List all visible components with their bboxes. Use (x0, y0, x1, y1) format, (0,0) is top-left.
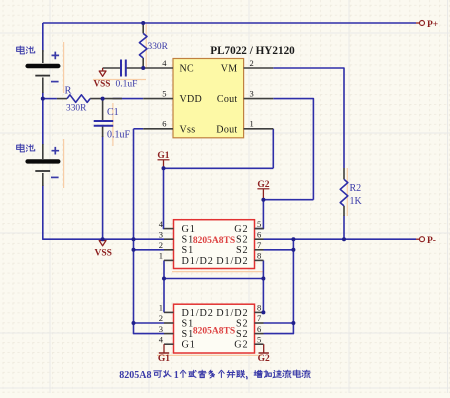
svg-text:1K: 1K (350, 196, 363, 207)
transistor U2 8205A8TS body (174, 220, 255, 269)
junction D net right (261, 277, 265, 281)
wire S2 column down to U3 pin6 (264, 239, 294, 333)
terminal P- (416, 236, 436, 246)
wire U2 pin8 to U3 pin8 (262, 260, 264, 312)
svg-text:G2: G2 (258, 354, 270, 364)
wire G1 down to U2 pin4 (163, 168, 166, 228)
junction S1 row2 (132, 248, 136, 252)
svg-text:VSS: VSS (95, 249, 112, 259)
svg-text:3: 3 (250, 88, 254, 98)
junction 330R / cap / NC (141, 66, 145, 70)
wire S1 row2 to U2 pin2 (134, 249, 165, 251)
capacitor 0.1uF (103, 60, 144, 90)
U2 pin 7 S2 (255, 249, 264, 251)
svg-text:1: 1 (174, 370, 179, 381)
marker battery B2 (63, 139, 65, 188)
svg-text:G1: G1 (158, 354, 170, 364)
node G1 (162, 166, 166, 170)
U3 pin 7 S2 (255, 322, 264, 324)
capacitor C1 0.1uF (94, 99, 131, 141)
U2 pin 6 S2 (255, 238, 264, 240)
junction battery / R (41, 97, 45, 101)
wire battery B1 bottom to node (42, 92, 44, 99)
marker battery B1 (63, 42, 65, 93)
svg-text:1: 1 (159, 251, 163, 261)
U2 pin 3 S1 (164, 238, 174, 240)
terminal P+ (416, 20, 438, 30)
U3 pin 2 S1 (164, 322, 174, 324)
svg-text:R: R (65, 86, 72, 97)
svg-text:G1: G1 (182, 224, 196, 235)
wire R2 bottom to P- rail (343, 216, 345, 240)
svg-text:Vss: Vss (180, 124, 196, 135)
net label G1 (157, 151, 169, 168)
U1 pin 2 VM (244, 67, 274, 69)
junction U3 pin7 (291, 321, 295, 325)
wire node G2 horizontal (263, 199, 313, 201)
svg-text:330R: 330R (148, 42, 169, 52)
power port G1 bottom (158, 344, 170, 364)
svg-text:2: 2 (159, 313, 163, 323)
svg-text:2: 2 (159, 240, 163, 250)
svg-text:8205A8: 8205A8 (119, 370, 151, 381)
wire G2 down to U2 pin5 (255, 200, 264, 229)
marker resistor R2 (346, 168, 348, 216)
svg-text:5: 5 (257, 219, 261, 229)
U1 pin 4 NC (143, 67, 173, 69)
svg-text:6: 6 (162, 119, 166, 129)
wire U2 pin1 to U3 pin1 (163, 260, 165, 312)
svg-text:S2: S2 (236, 245, 249, 256)
U3 pin 5 G2 (255, 343, 264, 345)
svg-text:R2: R2 (350, 183, 362, 194)
svg-text:VDD: VDD (180, 94, 203, 105)
svg-text:VSS: VSS (94, 79, 111, 89)
junction R / C1 (101, 97, 105, 101)
svg-text:Dout: Dout (216, 124, 237, 135)
svg-text:6: 6 (257, 324, 261, 334)
svg-text:1: 1 (159, 303, 163, 313)
marker under U2 (172, 271, 263, 273)
wire Vss pin6 column (133, 129, 135, 239)
svg-text:PL7022 / HY2120: PL7022 / HY2120 (210, 45, 295, 57)
power port VSS bottom (95, 241, 112, 259)
svg-text:C1: C1 (107, 107, 119, 118)
U3 pin 1 D1/D2 (164, 311, 174, 313)
svg-text:P+: P+ (427, 20, 438, 30)
transistor U3 8205A8TS body (174, 304, 255, 353)
svg-text:7: 7 (257, 240, 261, 250)
resistor R2 1K (340, 168, 362, 216)
junction P- rail / S2 (291, 237, 295, 241)
U1 pin 5 VDD (143, 98, 173, 100)
junction U2 pin7 (291, 248, 295, 252)
wire net P- rail (264, 238, 417, 240)
junction P- rail / R2 (342, 237, 346, 241)
svg-text:D1/D2: D1/D2 (182, 308, 214, 319)
power port VSS top (94, 68, 111, 89)
resistor R 330R (57, 86, 122, 114)
wire net P+ top rail (43, 22, 416, 24)
junction U3 pin8 (261, 310, 265, 314)
svg-text:3: 3 (159, 229, 163, 239)
wire VM pin2 to R2 top (273, 68, 344, 168)
junction top rail / 330R (141, 21, 145, 25)
svg-text:G1: G1 (182, 340, 196, 351)
wire node to R left (43, 98, 57, 100)
junction S1 rail (132, 237, 136, 241)
wire C1 bottom to VSS rail (102, 136, 104, 239)
svg-text:7: 7 (257, 313, 261, 323)
U2 pin 8 D1/D2 (255, 259, 264, 261)
svg-text:D1/D2: D1/D2 (216, 308, 248, 319)
U2 pin 2 S1 (164, 249, 174, 251)
battery B1 电池 (17, 46, 61, 93)
wire Cout pin3 down to G2 (273, 99, 313, 200)
U3 pin 4 G1 (164, 343, 174, 345)
wire D1/D2 tie under U2 (164, 278, 263, 280)
svg-text:3: 3 (159, 324, 163, 334)
svg-text:S1: S1 (182, 245, 195, 256)
wire node down to battery B2 (42, 99, 44, 145)
battery B2 电池 (17, 144, 61, 186)
svg-text:8205A8TS: 8205A8TS (193, 236, 235, 246)
svg-text:VM: VM (221, 64, 238, 75)
svg-text:330R: 330R (66, 104, 87, 114)
svg-text:P-: P- (427, 236, 436, 246)
svg-text:D1/D2: D1/D2 (216, 256, 248, 267)
svg-text:G2: G2 (234, 224, 248, 235)
U1 pin 3 Cout (244, 98, 274, 100)
node G2 (261, 198, 265, 202)
resistor 330R vertical (139, 23, 168, 68)
U3 pin 6 S2 (255, 333, 264, 335)
junction VSS rail / C1 (101, 237, 105, 241)
op-amp U1 PL7022 / HY2120 body (173, 59, 244, 138)
wire R right to VDD pin (113, 98, 144, 100)
svg-text:D1/D2: D1/D2 (182, 256, 214, 267)
svg-text:2: 2 (250, 58, 254, 68)
svg-text:S2: S2 (236, 235, 249, 246)
wire battery B2 to S1 rail (43, 185, 164, 239)
svg-text:8: 8 (257, 251, 261, 261)
svg-text:0.1uF: 0.1uF (116, 80, 138, 90)
svg-text:5: 5 (257, 334, 261, 344)
U2 pin 4 G1 (164, 228, 174, 230)
U2 pin 1 D1/D2 (164, 259, 174, 261)
svg-text:8205A8TS: 8205A8TS (193, 327, 235, 337)
marker VSS / 0.1uF underline (93, 79, 146, 81)
svg-text:NC: NC (180, 64, 195, 75)
svg-text:8: 8 (257, 303, 261, 313)
svg-text:S1: S1 (182, 329, 195, 340)
marker under U3 (157, 354, 262, 356)
U3 pin 3 S1 (164, 333, 174, 335)
wire Vss pin elbow (134, 128, 144, 130)
U2 pin 5 G2 (255, 228, 264, 230)
U3 pin 8 D1/D2 (255, 311, 264, 313)
svg-text:6: 6 (257, 229, 261, 239)
annotation 8205A8 can be paralleled note (119, 370, 310, 381)
wire U2 pin7 to S2 column (264, 249, 294, 251)
svg-text:S2: S2 (236, 318, 249, 329)
svg-text:S1: S1 (182, 318, 195, 329)
net label G2 (257, 180, 269, 200)
svg-text:S1: S1 (182, 235, 195, 246)
svg-text:S2: S2 (236, 329, 249, 340)
svg-text:1: 1 (250, 119, 254, 129)
wire VSS column down to U3 pin3 (134, 239, 165, 333)
power port G2 bottom (258, 344, 270, 364)
marker capacitor C1 (112, 103, 114, 146)
wire to U3 pin2 (134, 322, 165, 324)
junction D net left (162, 277, 166, 281)
svg-text:Cout: Cout (217, 94, 238, 105)
wire battery B1 top (42, 23, 44, 52)
wire Dout pin1 down (272, 129, 274, 169)
wire node G1 horizontal (164, 167, 274, 169)
U1 pin 1 Dout (244, 128, 274, 130)
junction U3 pin2 (132, 321, 136, 325)
marker resistor 330R vertical (145, 24, 147, 67)
U1 pin 6 Vss (143, 128, 173, 130)
wire S2 column to U3 pin7 (264, 322, 294, 324)
svg-text:G2: G2 (234, 340, 248, 351)
svg-text:0.1uF: 0.1uF (107, 130, 131, 141)
svg-text:5: 5 (162, 88, 166, 98)
